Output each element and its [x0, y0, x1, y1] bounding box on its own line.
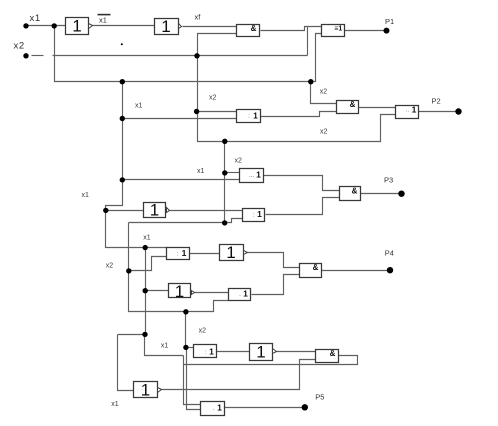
svg-text:1: 1	[253, 111, 258, 121]
svg-text:..: ..	[406, 108, 410, 114]
svg-text:1: 1	[217, 403, 222, 413]
svg-text:1: 1	[150, 201, 159, 220]
svg-text:1: 1	[256, 170, 261, 180]
svg-text:x2: x2	[106, 263, 114, 270]
svg-text:&: &	[330, 349, 336, 358]
svg-text:&: &	[350, 100, 356, 109]
svg-text:1: 1	[243, 289, 248, 299]
svg-text:1: 1	[161, 17, 170, 36]
svg-text:x2: x2	[235, 157, 243, 164]
svg-text:P1: P1	[385, 17, 394, 26]
svg-text:&: &	[352, 186, 358, 195]
svg-text:x1: x1	[111, 401, 119, 408]
svg-text:1: 1	[175, 282, 184, 301]
svg-text:&: &	[251, 24, 257, 33]
svg-text:x1: x1	[143, 234, 151, 241]
svg-text:1: 1	[72, 17, 81, 36]
svg-text:1: 1	[257, 209, 262, 219]
svg-text:xf: xf	[195, 13, 202, 22]
svg-text:x1: x1	[161, 342, 169, 349]
svg-text:1: 1	[141, 381, 150, 400]
svg-text:x2: x2	[320, 89, 328, 96]
svg-text:x2: x2	[199, 328, 207, 335]
svg-text:x2: x2	[14, 41, 25, 52]
svg-text:x1: x1	[82, 192, 90, 199]
svg-text:x2: x2	[320, 129, 328, 136]
svg-text:P5: P5	[315, 392, 324, 401]
svg-text:&: &	[313, 263, 319, 272]
svg-text:P2: P2	[432, 96, 441, 105]
svg-text:≡1: ≡1	[334, 26, 342, 33]
svg-text:1: 1	[256, 343, 265, 362]
svg-text:x1: x1	[99, 16, 107, 25]
svg-text:1: 1	[182, 248, 187, 258]
svg-text:P4: P4	[385, 248, 394, 257]
svg-text:1: 1	[209, 347, 214, 357]
svg-text:1: 1	[226, 243, 235, 262]
svg-text:P3: P3	[384, 175, 393, 184]
svg-text:...: ...	[249, 173, 254, 179]
svg-text:1: 1	[412, 105, 417, 115]
svg-text:x1: x1	[30, 13, 41, 24]
svg-text:x2: x2	[209, 94, 217, 101]
svg-text:x1: x1	[197, 168, 205, 175]
svg-text:x1: x1	[135, 103, 143, 110]
